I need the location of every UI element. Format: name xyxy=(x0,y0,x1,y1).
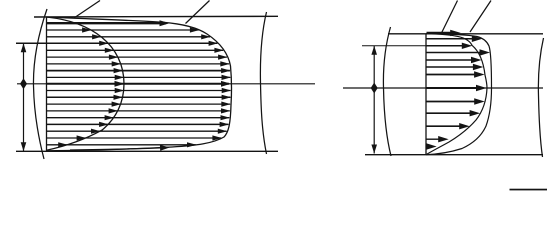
pipe top wall (right) xyxy=(388,33,543,35)
inner profile curve (right) xyxy=(426,34,487,155)
fraction bar (bottom right, cropped formula) xyxy=(510,189,547,191)
left break line (right pipe) xyxy=(383,27,391,156)
dimension mid diamond at centerline (left) xyxy=(20,78,27,89)
right break line (left pipe) xyxy=(260,12,266,154)
outer profile curve (right) xyxy=(426,34,492,155)
laminar profile curve (left, inner parabola) xyxy=(47,17,125,150)
velocity arrow row y=38.8 (right) xyxy=(427,38,474,40)
velocity arrow row y=77.4 (left) xyxy=(47,76,230,78)
velocity arrow row y=52.5 (right) xyxy=(427,52,482,54)
velocity arrow row y=74.5 (right) xyxy=(427,74,476,76)
bottom near-wall curved arrow (left) xyxy=(70,148,167,150)
centerline max-velocity arrow (left) xyxy=(47,83,229,85)
velocity datum line (left) xyxy=(46,17,48,151)
dimension mid diamond at centerline (right) xyxy=(371,83,378,94)
velocity arrow row y=113.2 (right) xyxy=(427,112,472,114)
velocity arrow row y=97.3 (left) xyxy=(47,96,230,98)
velocity arrow row y=63.9 (left) xyxy=(47,63,229,65)
velocity arrow row y=45.8 (right) xyxy=(362,45,427,47)
pipe centerline (left) xyxy=(17,83,315,85)
dimension line (left diameter/radius) xyxy=(23,43,25,151)
velocity arrow row y=43.3 (left) xyxy=(16,42,217,44)
velocity arrow row y=50.3 (left) xyxy=(47,49,223,51)
velocity arrow row y=101.5 (right) xyxy=(427,101,477,103)
velocity arrow row y=124.4 (left) xyxy=(47,123,228,125)
velocity arrow row y=139.2 (right) xyxy=(427,138,441,140)
velocity arrow row y=90.5 (left) xyxy=(47,90,231,92)
velocity arrow row y=67 (right) xyxy=(427,66,475,68)
velocity arrow row y=30 (left) xyxy=(47,29,199,31)
bold near-wall velocity arrow (left top) xyxy=(47,22,166,24)
velocity arrow row y=117.7 (left) xyxy=(47,117,229,119)
leader line 2 (turbulent label, left) xyxy=(186,1,210,24)
velocity datum line (right) xyxy=(425,34,427,155)
velocity arrow row y=110.9 (left) xyxy=(47,110,230,112)
leader line 2 (right) xyxy=(470,1,491,33)
centerline max-velocity arrow (right) xyxy=(427,87,479,89)
velocity arrow row y=36.8 (left) xyxy=(47,36,210,38)
pipe centerline (right) xyxy=(343,87,543,89)
leader line 1 (right) xyxy=(441,1,458,35)
leader line 1 (laminar label, left) xyxy=(74,1,100,19)
velocity arrow row y=146.5 (right) xyxy=(427,146,429,148)
velocity arrow row y=70.6 (left) xyxy=(47,70,230,72)
velocity arrow row y=57.1 (left) xyxy=(47,56,227,58)
velocity arrow row y=60 (right) xyxy=(427,59,473,61)
velocity arrow row y=126.2 (right) xyxy=(427,125,462,127)
pipe bottom wall (left) xyxy=(16,150,278,152)
right break line (right pipe) xyxy=(538,38,543,157)
pipe top wall (left) xyxy=(34,15,278,18)
left break line (left pipe inlet) xyxy=(33,9,47,159)
velocity arrow row y=32.9 (right) xyxy=(427,32,453,34)
dimension line (right radius) xyxy=(373,46,375,154)
velocity arrow row y=138 (left) xyxy=(47,137,221,139)
velocity arrow row y=131.2 (left) xyxy=(47,130,227,132)
pipe bottom wall (right) xyxy=(365,154,543,156)
turbulent profile curve (left, outer) xyxy=(47,17,232,151)
velocity arrow row y=144.8 (left) xyxy=(47,144,196,146)
velocity arrow row y=104.1 (left) xyxy=(47,103,230,105)
